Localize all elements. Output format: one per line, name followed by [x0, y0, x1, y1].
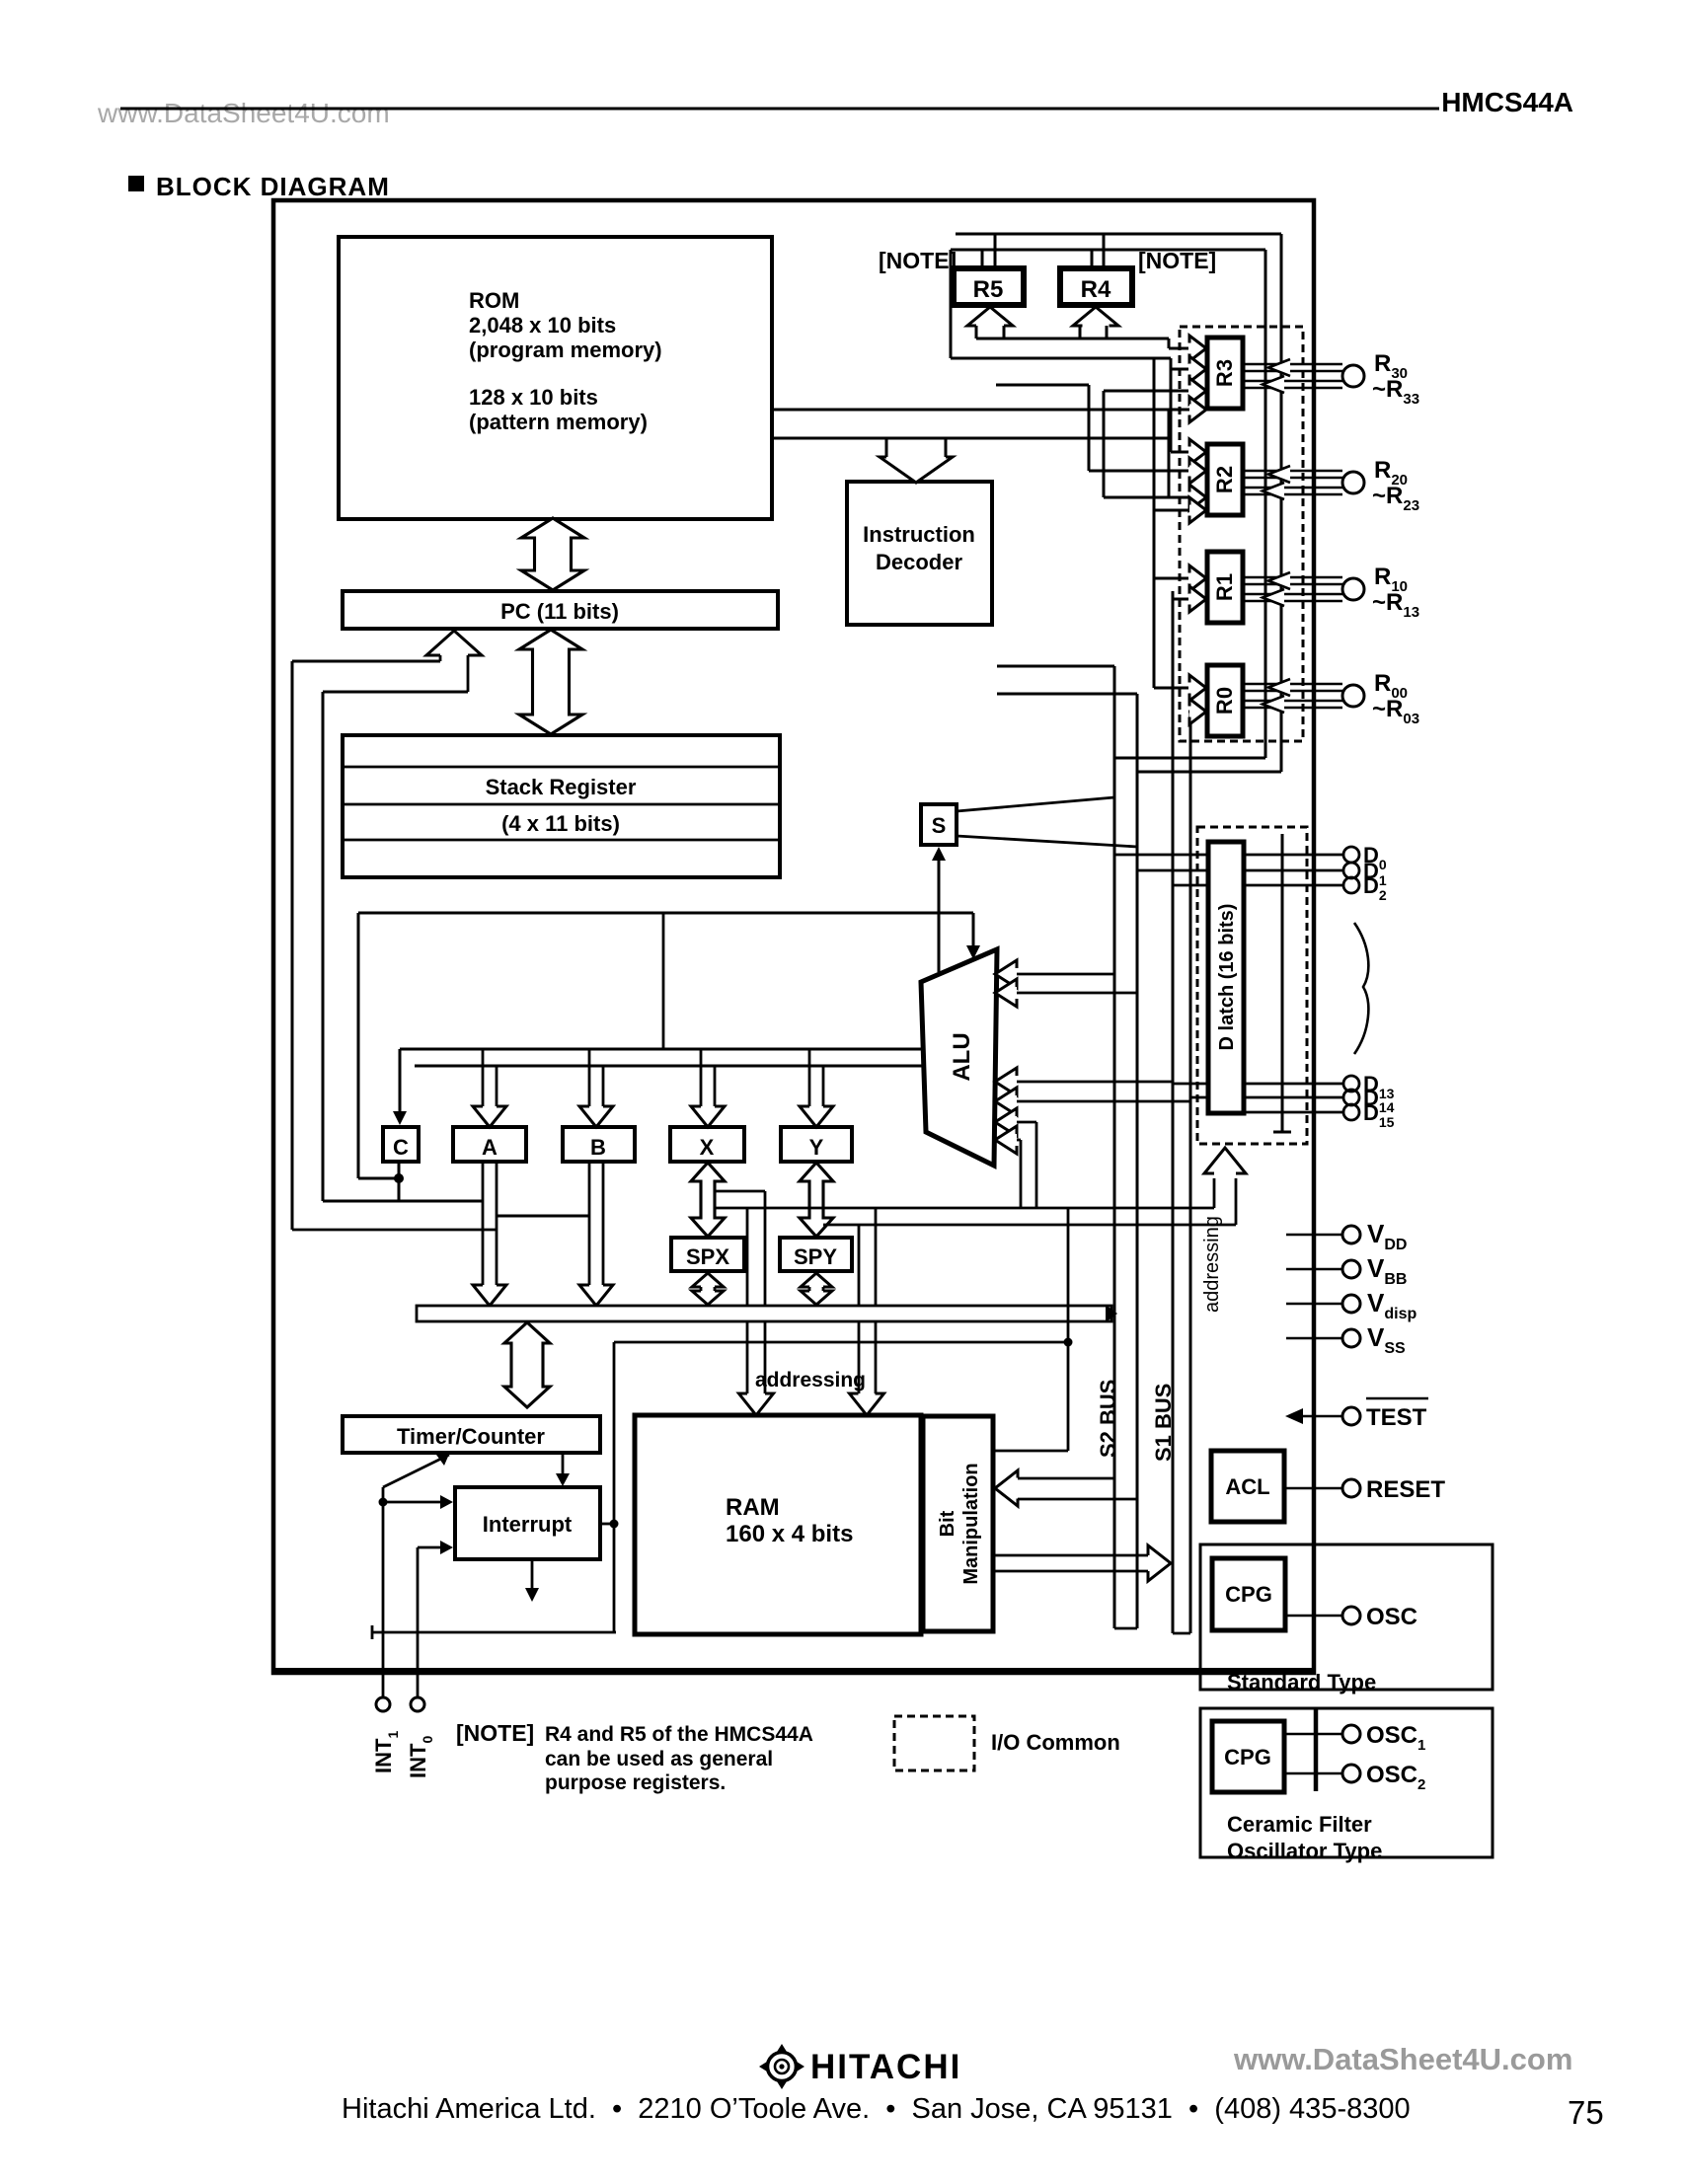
svg-text:www.DataSheet4U.com: www.DataSheet4U.com	[1233, 2042, 1572, 2076]
svg-text:~R23: ~R23	[1372, 483, 1419, 514]
svg-text:ROM: ROM	[469, 288, 519, 313]
svg-text:D latch (16 bits): D latch (16 bits)	[1216, 904, 1238, 1051]
svg-text:R4 and R5 of the HMCS44A: R4 and R5 of the HMCS44A	[545, 1723, 813, 1746]
svg-text:RESET: RESET	[1366, 1476, 1445, 1503]
svg-text:ACL: ACL	[1225, 1474, 1269, 1499]
svg-text:SPX: SPX	[686, 1244, 729, 1269]
svg-text:HMCS44A: HMCS44A	[1441, 87, 1573, 117]
svg-text:[NOTE]: [NOTE]	[879, 248, 957, 273]
svg-text:I/O Common: I/O Common	[991, 1730, 1120, 1755]
svg-text:INT0: INT0	[406, 1736, 435, 1778]
svg-text:R3: R3	[1212, 359, 1237, 387]
svg-text:Standard Type: Standard Type	[1227, 1670, 1376, 1694]
svg-text:RAM: RAM	[726, 1494, 780, 1521]
svg-text:2,048 x 10 bits: 2,048 x 10 bits	[469, 313, 616, 338]
svg-text:Oscillator Type: Oscillator Type	[1227, 1839, 1382, 1863]
svg-text:PC (11 bits): PC (11 bits)	[500, 599, 619, 624]
svg-text:CPG: CPG	[1224, 1745, 1271, 1770]
svg-text:B: B	[590, 1135, 606, 1160]
svg-text:R2: R2	[1212, 466, 1237, 493]
svg-text:A: A	[482, 1135, 498, 1160]
svg-text:128 x 10 bits: 128 x 10 bits	[469, 385, 598, 410]
svg-text:Timer/Counter: Timer/Counter	[397, 1424, 545, 1449]
svg-text:OSC: OSC	[1366, 1604, 1417, 1630]
svg-text:ALU: ALU	[949, 1032, 975, 1081]
svg-text:S1 BUS: S1 BUS	[1151, 1384, 1176, 1462]
svg-text:Manipulation: Manipulation	[960, 1463, 982, 1584]
svg-text:OSC1: OSC1	[1366, 1722, 1425, 1754]
svg-text:~R33: ~R33	[1372, 376, 1419, 408]
svg-text:VSS: VSS	[1367, 1322, 1406, 1357]
svg-text:(program memory): (program memory)	[469, 338, 662, 362]
svg-text:BLOCK DIAGRAM: BLOCK DIAGRAM	[156, 172, 390, 201]
svg-text:C: C	[393, 1135, 409, 1160]
svg-text:S2 BUS: S2 BUS	[1096, 1380, 1120, 1458]
svg-text:S: S	[932, 813, 947, 838]
svg-text:[NOTE]: [NOTE]	[1138, 248, 1216, 273]
svg-text:[NOTE]: [NOTE]	[456, 1720, 534, 1746]
svg-text:CPG: CPG	[1225, 1582, 1272, 1607]
svg-text:(pattern memory): (pattern memory)	[469, 410, 648, 434]
svg-text:(4 x 11 bits): (4 x 11 bits)	[501, 811, 620, 836]
svg-text:Y: Y	[809, 1135, 824, 1160]
svg-text:Vdisp: Vdisp	[1367, 1288, 1417, 1322]
svg-text:addressing: addressing	[1201, 1216, 1223, 1313]
svg-text:Stack Register: Stack Register	[486, 775, 637, 799]
svg-text:Decoder: Decoder	[876, 550, 962, 574]
svg-text:~R03: ~R03	[1372, 696, 1419, 727]
svg-text:OSC2: OSC2	[1366, 1762, 1425, 1793]
svg-text:TEST: TEST	[1366, 1404, 1427, 1431]
svg-text:X: X	[700, 1135, 715, 1160]
svg-text:160 x 4 bits: 160 x 4 bits	[726, 1521, 853, 1547]
svg-text:VDD: VDD	[1367, 1219, 1407, 1253]
svg-text:www.DataSheet4U.com: www.DataSheet4U.com	[97, 98, 390, 128]
svg-text:75: 75	[1568, 2094, 1604, 2131]
svg-text:R0: R0	[1212, 687, 1237, 715]
svg-text:can be used as general: can be used as general	[545, 1748, 773, 1770]
svg-text:HITACHI: HITACHI	[810, 2048, 961, 2086]
svg-text:Interrupt: Interrupt	[483, 1512, 573, 1537]
svg-text:VBB: VBB	[1367, 1253, 1407, 1288]
svg-text:Ceramic Filter: Ceramic Filter	[1227, 1812, 1372, 1837]
svg-text:addressing: addressing	[755, 1369, 866, 1392]
svg-text:Hitachi America Ltd. • 2210: Hitachi America Ltd. • 2210 O’Toole Ave.…	[342, 2093, 1411, 2125]
svg-text:purpose registers.: purpose registers.	[545, 1771, 726, 1794]
svg-text:R4: R4	[1081, 276, 1111, 303]
svg-text:R1: R1	[1212, 573, 1237, 601]
svg-text:Bit: Bit	[937, 1510, 958, 1537]
svg-text:~R13: ~R13	[1372, 589, 1419, 621]
svg-text:Instruction: Instruction	[863, 522, 975, 547]
svg-text:INT1: INT1	[371, 1731, 401, 1773]
svg-text:R5: R5	[973, 276, 1004, 303]
svg-text:SPY: SPY	[794, 1244, 837, 1269]
